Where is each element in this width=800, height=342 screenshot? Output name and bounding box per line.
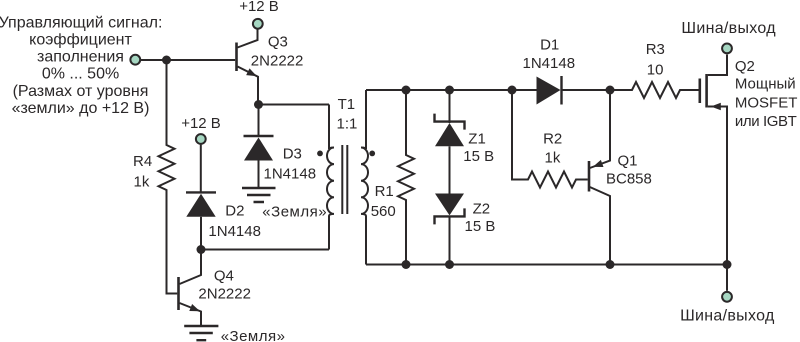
svg-text:«земли» до +12 В): «земли» до +12 В) <box>12 100 150 117</box>
svg-text:R1: R1 <box>375 183 394 200</box>
node R1 bottom junction <box>402 260 411 269</box>
wire junction to transformer primary top <box>259 104 330 106</box>
node output terminal top <box>681 20 776 54</box>
svg-text:Q1: Q1 <box>618 153 638 170</box>
wire between zeners <box>449 146 451 193</box>
svg-text:2N2222: 2N2222 <box>198 286 251 303</box>
label control signal annotation <box>0 14 162 117</box>
svg-text:1k: 1k <box>134 173 150 190</box>
svg-text:коэффициент: коэффициент <box>29 32 132 49</box>
svg-text:или IGBT: или IGBT <box>735 113 797 130</box>
resistor R1 560 <box>371 90 414 265</box>
node +12V terminal (D2) <box>181 115 221 144</box>
node output terminal bottom <box>680 292 775 325</box>
svg-text:T1: T1 <box>338 96 356 113</box>
svg-text:Q2: Q2 <box>735 58 755 75</box>
svg-text:MOSFET: MOSFET <box>735 95 798 112</box>
svg-text:10: 10 <box>647 62 664 79</box>
svg-text:1N4148: 1N4148 <box>264 165 317 182</box>
node Q1 emitter junction <box>606 86 615 95</box>
svg-text:R4: R4 <box>133 153 152 170</box>
svg-text:Q3: Q3 <box>268 34 288 51</box>
node R2 branch junction <box>508 86 517 95</box>
svg-text:1N4148: 1N4148 <box>208 223 261 240</box>
svg-text:R2: R2 <box>543 131 562 148</box>
svg-text:1k: 1k <box>545 150 561 167</box>
svg-text:0% ... 50%: 0% ... 50% <box>42 66 119 83</box>
wire junction to transformer primary bottom <box>201 249 329 251</box>
node zener bottom junction <box>445 260 454 269</box>
svg-text:2N2222: 2N2222 <box>251 53 304 70</box>
transistor Q4 2N2222 <box>179 250 251 326</box>
node D2/Q4 junction <box>197 245 206 254</box>
svg-text:R3: R3 <box>646 41 665 58</box>
ground (D3) <box>242 188 327 220</box>
ground (Q4) <box>184 326 285 342</box>
svg-text:D2: D2 <box>225 202 244 219</box>
node control-signal input terminal <box>130 55 140 65</box>
wire top rail secondary to D1 <box>366 89 537 91</box>
svg-text:(Размах от уровня: (Размах от уровня <box>13 83 149 100</box>
svg-text:15 В: 15 В <box>465 218 496 235</box>
node input junction <box>162 56 171 65</box>
svg-text:1N4148: 1N4148 <box>523 55 576 72</box>
node +12V terminal (Q3 collector) <box>239 0 279 29</box>
wire bottom rail <box>366 264 727 266</box>
svg-text:D1: D1 <box>540 37 559 54</box>
svg-text:Шина/выход: Шина/выход <box>680 308 775 325</box>
svg-text:Z1: Z1 <box>468 131 486 148</box>
transistor Q2 power MOSFET <box>700 55 798 265</box>
svg-text:заполнения: заполнения <box>37 49 124 66</box>
diode D2 1N4148 <box>186 145 261 250</box>
resistor R3 10 <box>610 41 699 98</box>
transformer T1 core <box>342 145 347 214</box>
diode D3 1N4148 <box>244 105 317 189</box>
transformer T1 primary winding <box>317 96 357 250</box>
svg-text:+12 В: +12 В <box>181 115 221 132</box>
svg-text:Q4: Q4 <box>214 267 234 284</box>
node Q3 emitter junction <box>254 100 263 109</box>
node zener top junction <box>445 86 454 95</box>
svg-text:D3: D3 <box>283 146 302 163</box>
svg-text:560: 560 <box>371 203 396 220</box>
node output junction bottom <box>723 260 732 269</box>
resistor R2 1k <box>512 90 588 188</box>
svg-text:«Земля»: «Земля» <box>262 203 327 220</box>
svg-text:15 В: 15 В <box>463 148 494 165</box>
svg-text:Шина/выход: Шина/выход <box>681 20 776 37</box>
svg-text:Z2: Z2 <box>473 201 491 218</box>
svg-text:+12 В: +12 В <box>239 0 279 15</box>
svg-text:Мощный: Мощный <box>735 75 796 92</box>
svg-text:Управляющий сигнал:: Управляющий сигнал: <box>0 14 162 31</box>
zener Z2 15V <box>435 194 496 265</box>
node R1 top junction <box>402 86 411 95</box>
zener Z1 15V <box>435 90 495 165</box>
svg-text:«Земля»: «Земля» <box>221 328 286 342</box>
wire input to Q3 base <box>141 59 235 61</box>
node Q1 collector junction <box>606 260 615 269</box>
resistor R4 1k <box>133 60 177 294</box>
svg-text:BC858: BC858 <box>606 171 652 188</box>
transformer T1 secondary winding <box>361 90 375 265</box>
diode D1 1N4148 <box>523 37 633 105</box>
transistor Q1 BC858 <box>589 90 652 265</box>
transistor Q3 2N2222 <box>237 30 304 105</box>
svg-text:1:1: 1:1 <box>337 115 358 132</box>
wire output junction to bottom terminal <box>726 265 728 291</box>
